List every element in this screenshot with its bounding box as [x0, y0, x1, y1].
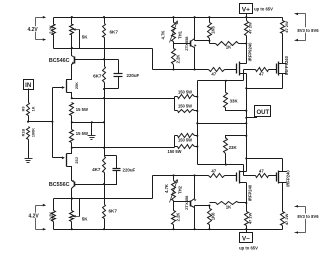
- resistor 2.2K (top bias): [49, 18, 56, 49]
- svg-text:BC556C: BC556C: [49, 182, 70, 188]
- svg-text:1K: 1K: [226, 204, 232, 209]
- svg-text:OUT: OUT: [256, 110, 269, 116]
- box IN terminal: [24, 80, 34, 103]
- measurement arrow 8V3 to 8V6 (top): [295, 13, 320, 42]
- resistor 2.2K (bottom bias): [49, 199, 56, 230]
- wire: gate of upper JFET: [53, 86, 65, 89]
- resistor 47 (gate, upper right): [256, 68, 277, 77]
- resistor 1K (bottom): [210, 202, 248, 210]
- svg-text:100K: 100K: [31, 128, 35, 137]
- wire: gate of lower JFET: [53, 156, 65, 159]
- svg-text:4.2V: 4.2V: [27, 27, 38, 33]
- svg-text:47 2W: 47 2W: [247, 212, 252, 224]
- svg-text:2.2K: 2.2K: [175, 213, 180, 222]
- resistor 6K7 (VAS load top): [93, 60, 105, 89]
- trimmer TH1 4.7K (top): [160, 16, 182, 42]
- svg-text:5K: 5K: [82, 34, 89, 39]
- svg-text:up to 65V: up to 65V: [239, 246, 258, 251]
- svg-text:220uF: 220uF: [127, 73, 140, 78]
- resistor 150 5W (top pair A): [175, 89, 198, 98]
- wire: base line (top): [76, 59, 119, 61]
- svg-text:8V3 to 8V6: 8V3 to 8V6: [297, 214, 319, 219]
- measurement arrow 8V3 to 8V6 (bottom): [295, 205, 320, 234]
- resistor 33K: [224, 81, 248, 112]
- resistor 47 2W (upper #1): [245, 18, 253, 36]
- svg-text:2.2K: 2.2K: [49, 25, 54, 34]
- box V+ terminal: [240, 4, 253, 19]
- svg-text:V+: V+: [242, 6, 250, 13]
- svg-text:33K: 33K: [230, 98, 239, 103]
- ground (input): [25, 159, 33, 163]
- svg-text:4.7K: 4.7K: [164, 184, 169, 193]
- transistor BC556C: [49, 179, 76, 200]
- svg-text:5K: 5K: [82, 216, 89, 221]
- svg-text:4.2V: 4.2V: [28, 213, 39, 219]
- resistor 23K: [224, 135, 248, 165]
- wire: OUT line: [198, 123, 247, 125]
- resistor 47 (gate, upper left): [209, 68, 237, 77]
- wire: lower MOSFET source bus: [247, 158, 283, 160]
- resistor 47 (gate, lower left): [209, 169, 237, 178]
- svg-text:47: 47: [259, 71, 264, 76]
- svg-text:TH1: TH1: [178, 30, 183, 39]
- trimmer TH2 4.7K (bottom): [164, 174, 183, 202]
- svg-text:6K7: 6K7: [93, 74, 102, 79]
- svg-text:TH2: TH2: [178, 185, 183, 194]
- wire: bottom bias node: [54, 198, 153, 200]
- wire: ground tap line: [71, 121, 105, 123]
- svg-text:220uF: 220uF: [123, 167, 136, 172]
- resistor 1K (top): [210, 42, 248, 50]
- resistor 2.2K (top bias chain): [172, 42, 181, 71]
- svg-text:150 5W: 150 5W: [167, 149, 181, 154]
- resistor 150 5W (top pair B): [175, 97, 198, 113]
- wire: top bias node: [54, 48, 153, 50]
- wire: output-side node of 150 ohm resistors: [196, 81, 198, 165]
- svg-text:6K7: 6K7: [110, 30, 119, 35]
- MOSFET IRFP9240 (upper #2): [277, 34, 290, 89]
- wire: upper gate drive line: [153, 49, 209, 70]
- resistor 47 2W (lower #1): [245, 203, 253, 230]
- wire: mid bus vertical: [103, 89, 105, 156]
- resistor 15 5W (upper): [70, 103, 88, 123]
- resistor 4K7 (VAS load bottom): [92, 156, 105, 185]
- svg-text:23K: 23K: [229, 145, 238, 150]
- resistor 150 5W (bottom pair A): [175, 134, 198, 148]
- resistor 1K6 (top): [208, 16, 216, 43]
- resistor 47 2W (lower #2): [281, 212, 289, 230]
- resistor R1B 100K (input shunt): [22, 127, 36, 159]
- svg-text:47 2W: 47 2W: [247, 22, 252, 34]
- measurement arrow 4.2V (bottom): [28, 204, 46, 231]
- svg-text:4K7: 4K7: [92, 167, 101, 172]
- measurement arrow 4.2V (top): [27, 16, 46, 41]
- resistor 15 5W (lower): [70, 123, 88, 148]
- ground (mid rail reference): [88, 123, 96, 140]
- svg-text:IRFP240: IRFP240: [285, 170, 290, 187]
- MOSFET IRFP9240 (upper #1): [237, 36, 253, 90]
- box V- terminal: [240, 228, 253, 242]
- wire: upper MOSFET source bus: [247, 88, 283, 90]
- svg-text:47 2W: 47 2W: [284, 21, 289, 33]
- wire: lower gate drive line: [153, 176, 209, 199]
- resistor R9 1K (input series): [22, 103, 36, 123]
- svg-text:8V3 to 8V6: 8V3 to 8V6: [297, 28, 319, 33]
- svg-text:R1B: R1B: [22, 129, 26, 137]
- svg-text:2.2K: 2.2K: [49, 212, 54, 221]
- svg-text:2.2K: 2.2K: [175, 55, 180, 64]
- svg-text:IRFP9240: IRFP9240: [284, 55, 289, 75]
- resistor 2.2K (bottom bias chain): [172, 201, 181, 231]
- resistor 6K7 (top, from V+ rail): [103, 16, 119, 60]
- wire: output bus vertical: [245, 89, 247, 159]
- wire: gate feed vertical: [51, 88, 53, 158]
- label: up to 65V (top): [254, 7, 273, 12]
- svg-text:47: 47: [259, 169, 264, 174]
- transistor 25J JFET (lower): [67, 147, 80, 179]
- svg-text:150 5W: 150 5W: [178, 137, 192, 142]
- svg-text:1K: 1K: [31, 106, 35, 111]
- svg-text:15 5W: 15 5W: [76, 107, 88, 112]
- svg-text:25J: 25J: [75, 157, 79, 163]
- resistor 47 (gate, lower right): [256, 169, 277, 178]
- wire: upper cascode line: [198, 70, 256, 82]
- resistor 1K6 (bottom): [208, 205, 216, 231]
- transistor 25K JFET (upper): [67, 69, 80, 100]
- svg-text:15 5W: 15 5W: [76, 131, 88, 136]
- svg-text:up to 65V: up to 65V: [254, 7, 273, 12]
- wire: V+ supply rail: [54, 17, 283, 19]
- transistor ZTX558 (upper driver): [174, 16, 211, 70]
- wire: upper source bus: [72, 98, 175, 100]
- resistor 6K7 (bottom, to V- rail): [103, 185, 118, 231]
- wire: lower source bus: [72, 147, 175, 149]
- MOSFET IRFP240 (lower #1): [237, 157, 253, 202]
- svg-text:IRFP9240: IRFP9240: [248, 42, 253, 62]
- svg-text:25K: 25K: [75, 82, 79, 89]
- trimpot 5K (bottom): [70, 198, 89, 231]
- svg-text:IRFP240: IRFP240: [248, 184, 253, 201]
- MOSFET IRFP240 (lower #2): [277, 159, 291, 212]
- svg-text:150 5W: 150 5W: [178, 89, 192, 94]
- wire: V- supply rail: [54, 229, 283, 231]
- trimpot 5K (top): [70, 16, 89, 49]
- svg-text:R9: R9: [22, 107, 26, 112]
- svg-text:47: 47: [211, 169, 216, 174]
- resistor 47 2W (upper #2): [281, 18, 289, 34]
- box OUT terminal: [247, 106, 271, 118]
- junction dots on rails: [71, 16, 105, 18]
- svg-text:1K: 1K: [226, 45, 232, 50]
- svg-text:ZTX458: ZTX458: [184, 195, 189, 210]
- svg-text:IN: IN: [25, 82, 32, 89]
- svg-text:6K7: 6K7: [109, 209, 118, 214]
- svg-text:1K6: 1K6: [211, 25, 216, 33]
- svg-text:V−: V−: [242, 236, 250, 243]
- svg-text:BC546C: BC546C: [49, 58, 70, 64]
- svg-text:47: 47: [211, 71, 216, 76]
- capacitor 220uF (top): [103, 60, 140, 91]
- transistor BC546C: [49, 47, 76, 69]
- wire: lower cascode line: [198, 164, 256, 176]
- resistor 150 5W (bottom pair B): [167, 136, 197, 154]
- wire: input junction to gates: [29, 121, 53, 123]
- svg-text:47 2W: 47 2W: [284, 213, 289, 225]
- wire: base line (bottom): [76, 183, 106, 185]
- transistor ZTX458 (lower driver): [174, 174, 211, 230]
- svg-text:4.7K: 4.7K: [160, 31, 165, 40]
- capacitor 220uF (bottom): [105, 156, 136, 185]
- label: up to 65V (bottom): [239, 246, 258, 251]
- svg-text:1K6: 1K6: [211, 212, 216, 220]
- svg-text:150 5W: 150 5W: [178, 104, 192, 109]
